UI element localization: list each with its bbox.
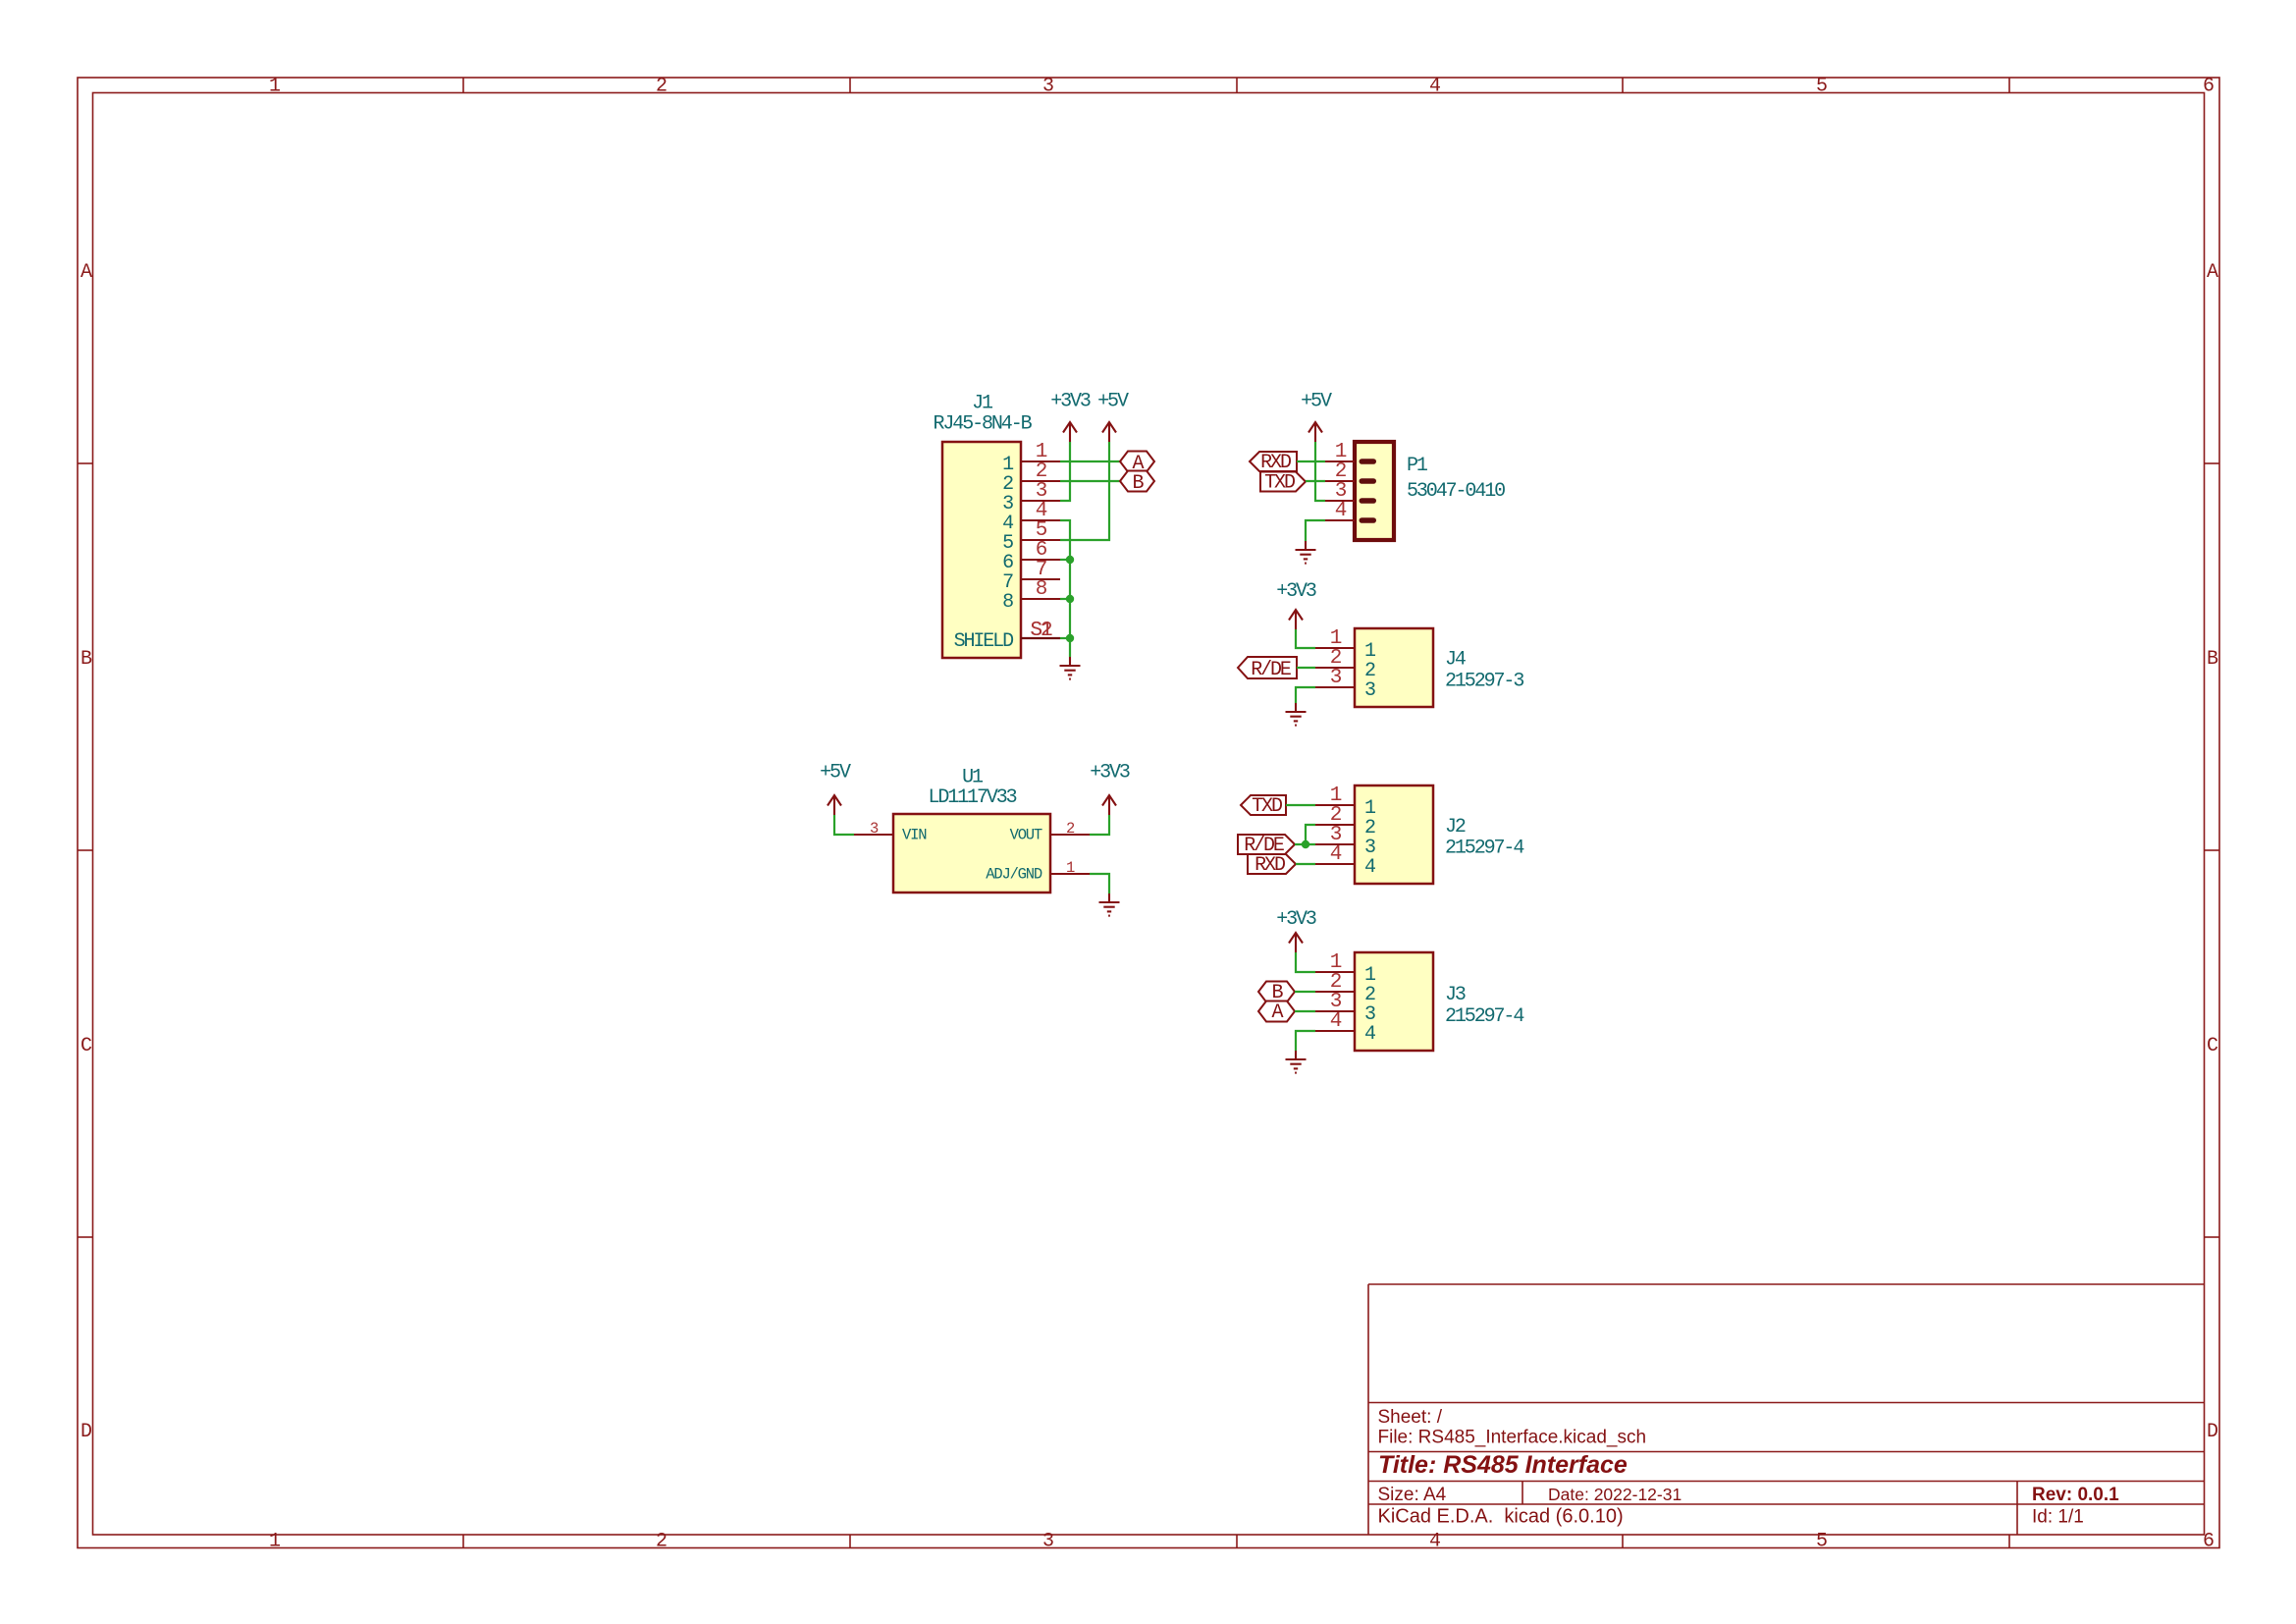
connector J2 215297-4 body (1355, 785, 1523, 884)
wire +5V to P1 pin3 (1315, 442, 1325, 501)
svg-text:+5V: +5V (820, 762, 851, 785)
wire J1 shield stub (1060, 637, 1070, 639)
global label A (1120, 452, 1154, 476)
J2 pin 1 (1315, 785, 1376, 820)
svg-text:4: 4 (1330, 843, 1342, 866)
wire RXD to P1 pin1 (1297, 460, 1325, 462)
svg-text:+3V3: +3V3 (1050, 391, 1091, 413)
wire B to J3 pin2 (1295, 991, 1315, 993)
J1 pin 7 (1002, 559, 1060, 594)
svg-text:TXD: TXD (1264, 472, 1295, 495)
svg-text:Title: RS485 Interface: Title: RS485 Interface (1378, 1451, 1628, 1479)
svg-text:215297-3: 215297-3 (1445, 671, 1523, 693)
ground (U1) (1099, 893, 1120, 916)
wire U1 ADJ/GND to ground (1090, 874, 1109, 893)
J1 pin 5 (1002, 519, 1060, 555)
J1 pin 2 (1002, 460, 1060, 496)
wire A to J3 pin3 (1295, 1010, 1315, 1012)
J3 pin 3 (1315, 991, 1375, 1026)
global label TXD (J2) (1241, 795, 1286, 818)
J2 pin 4 (1315, 843, 1375, 879)
junction R/DE branch (1302, 840, 1309, 848)
J1 pin 4 (1002, 500, 1060, 535)
title block (1368, 1284, 2205, 1535)
wire J1 pin5 to +5V (1060, 442, 1109, 540)
svg-text:53047-0410: 53047-0410 (1407, 480, 1505, 503)
svg-text:Id: 1/1: Id: 1/1 (2032, 1507, 2084, 1528)
J1 pin 1 (1002, 441, 1060, 476)
svg-text:Sheet: /: Sheet: / (1378, 1407, 1443, 1428)
power +3V3 (J4) (1276, 580, 1316, 629)
global label TXD (P1) (1260, 472, 1306, 495)
wire J1 pin1 to label A (1060, 460, 1120, 462)
svg-text:2: 2 (656, 1531, 667, 1553)
ground (J3) (1286, 1051, 1307, 1073)
connector P1 53047-0410 body (1355, 442, 1505, 540)
ground (P1) (1296, 541, 1316, 564)
svg-text:8: 8 (1002, 591, 1013, 614)
svg-text:RJ45-8N4-B: RJ45-8N4-B (933, 413, 1032, 436)
wire R/DE to J4 pin2 (1297, 667, 1315, 669)
wire J3 pin4 to ground (1296, 1031, 1315, 1051)
wire +3V3 to J4 pin1 (1296, 629, 1315, 648)
svg-text:File: RS485_Interface.kicad_sc: File: RS485_Interface.kicad_sch (1378, 1428, 1647, 1448)
svg-text:5: 5 (1816, 76, 1827, 98)
svg-text:3: 3 (1330, 667, 1342, 689)
svg-text:TXD: TXD (1252, 795, 1282, 818)
J4 pin 1 (1315, 627, 1376, 663)
svg-text:5: 5 (1816, 1531, 1827, 1553)
svg-text:ADJ/GND: ADJ/GND (986, 866, 1042, 884)
svg-text:KiCad E.D.A. kicad (6.0.10): KiCad E.D.A. kicad (6.0.10) (1378, 1506, 1624, 1528)
global label B (J3) (1258, 982, 1295, 1005)
wire J1 pin3 to +3V3 (1060, 442, 1070, 501)
svg-text:VOUT: VOUT (1010, 827, 1042, 844)
svg-text:1: 1 (1066, 859, 1075, 877)
connector J1 RJ45-8N4-B body (933, 393, 1032, 659)
wire J1 pin4 ground bus (1060, 520, 1070, 657)
svg-text:RXD: RXD (1255, 854, 1285, 877)
P1 pin 1 (1325, 441, 1355, 463)
svg-text:215297-4: 215297-4 (1445, 1005, 1523, 1028)
J1 pin 8 (1002, 578, 1060, 614)
svg-text:4: 4 (1364, 1023, 1375, 1046)
global label B (1120, 471, 1154, 496)
power +5V (J1) (1097, 391, 1129, 443)
global label RXD (J2) (1248, 854, 1296, 877)
J3 pin 1 (1315, 951, 1376, 987)
svg-text:3: 3 (1042, 1531, 1053, 1553)
svg-text:+3V3: +3V3 (1276, 580, 1316, 603)
svg-text:+5V: +5V (1301, 391, 1332, 413)
global label A (J3) (1258, 1001, 1295, 1025)
wire TXD to P1 pin2 (1306, 480, 1325, 482)
svg-text:6: 6 (2203, 1531, 2214, 1553)
svg-text:4: 4 (1335, 500, 1347, 522)
power +5V (P1) (1301, 391, 1332, 443)
svg-text:8: 8 (1036, 578, 1047, 601)
global label R/DE (J2) (1238, 835, 1295, 857)
wire P1 pin4 to ground (1306, 520, 1325, 541)
svg-text:3: 3 (1042, 76, 1053, 98)
svg-text:2: 2 (656, 76, 667, 98)
regulator U1 LD1117V33 body (893, 767, 1050, 893)
J1 pin 6 (1002, 539, 1060, 574)
U1 pin 2 VOUT (1050, 820, 1090, 838)
svg-text:3: 3 (870, 820, 879, 838)
U1 pin 1 ADJ/GND (1050, 859, 1090, 877)
J3 pin 2 (1315, 971, 1375, 1006)
svg-text:P1: P1 (1407, 455, 1428, 477)
svg-text:J3: J3 (1445, 984, 1466, 1006)
svg-text:2: 2 (1066, 820, 1075, 838)
P1 pin 4 (1325, 500, 1355, 522)
svg-text:D: D (80, 1421, 91, 1443)
power +5V (U1) (820, 762, 851, 816)
svg-text:SHIELD: SHIELD (954, 630, 1014, 653)
connector J3 215297-4 body (1355, 952, 1523, 1051)
svg-text:6: 6 (2203, 76, 2214, 98)
J2 pin 3 (1315, 824, 1375, 859)
ground (J1) (1060, 657, 1081, 679)
svg-text:Date: 2022-12-31: Date: 2022-12-31 (1548, 1485, 1682, 1504)
wire U1 VOUT to +3V3 (1090, 815, 1109, 835)
wire R/DE branch to J2 pin2 (1306, 825, 1315, 844)
J3 pin 4 (1315, 1010, 1375, 1046)
wire TXD to J2 pin1 (1286, 804, 1315, 806)
wire R/DE to J2 pin3 (1295, 843, 1315, 845)
J4 pin 2 (1315, 647, 1375, 682)
wire J1 pin2 to label B (1060, 480, 1120, 482)
svg-text:3: 3 (1364, 679, 1375, 702)
U1 pin 3 VIN (854, 820, 893, 838)
power +3V3 (J1) (1050, 391, 1091, 443)
svg-text:+3V3: +3V3 (1090, 762, 1130, 785)
svg-text:215297-4: 215297-4 (1445, 838, 1523, 860)
wire J1 pin8 stub (1060, 598, 1070, 600)
svg-text:D: D (2207, 1421, 2217, 1443)
junction J1 pin8 (1066, 595, 1074, 603)
svg-text:+3V3: +3V3 (1276, 908, 1316, 931)
svg-text:LD1117V33: LD1117V33 (928, 786, 1016, 809)
ground (J4) (1286, 703, 1307, 726)
J2 pin 2 (1315, 804, 1375, 839)
junction J1 shield (1066, 634, 1074, 642)
svg-text:4: 4 (1429, 76, 1440, 98)
P1 pin 2 (1325, 460, 1355, 483)
junction J1 pin6 (1066, 556, 1074, 564)
J1 pin SHIELD S2 (954, 620, 1060, 653)
svg-text:J2: J2 (1445, 816, 1466, 839)
svg-text:4: 4 (1429, 1531, 1440, 1553)
connector J4 215297-3 body (1355, 628, 1523, 707)
J4 pin 3 (1315, 667, 1375, 702)
global label RXD (P1) (1250, 452, 1297, 474)
wire J4 pin3 to ground (1296, 687, 1315, 703)
svg-text:Rev: 0.0.1: Rev: 0.0.1 (2032, 1485, 2119, 1505)
power +3V3 (J3) (1276, 908, 1316, 952)
wire +3V3 to J3 pin1 (1296, 952, 1315, 972)
svg-text:4: 4 (1330, 1010, 1342, 1033)
svg-text:Size: A4: Size: A4 (1378, 1485, 1447, 1505)
wire RXD to J2 pin4 (1296, 863, 1315, 865)
svg-text:J1: J1 (972, 393, 993, 415)
wire +5V to U1 VIN (834, 815, 854, 835)
global label R/DE (J4) (1238, 657, 1297, 681)
wire J1 pin6 stub (1060, 559, 1070, 561)
svg-text:+5V: +5V (1097, 391, 1129, 413)
svg-text:S2: S2 (1030, 620, 1052, 642)
svg-text:R/DE: R/DE (1251, 659, 1291, 681)
power +3V3 (U1) (1090, 762, 1130, 816)
J1 pin 3 (1002, 480, 1060, 515)
svg-text:VIN: VIN (902, 827, 927, 844)
P1 pin 3 (1325, 480, 1355, 503)
svg-text:J4: J4 (1445, 649, 1466, 672)
svg-text:4: 4 (1364, 856, 1375, 879)
